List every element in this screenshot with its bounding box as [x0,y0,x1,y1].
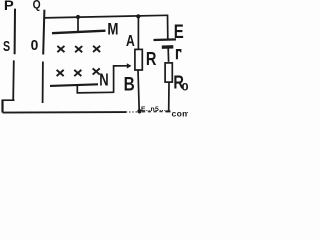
node junction dot at M drop [76,15,80,19]
magnetic field x row 1 [57,46,100,52]
wiper arrow shaft [113,65,127,67]
node junction dot on bottom rail [137,109,141,113]
capacitor plate Q-O (right vertical plate) [43,10,44,55]
svg-text:P: P [4,0,14,14]
wire jog horizontal [3,99,15,101]
wiper arrowhead [127,63,132,68]
bottom rail faded dashed segment [126,111,138,113]
wire drop to plate M [77,17,79,33]
svg-text:E: E [174,20,184,42]
battery short thick plate [162,45,174,49]
svg-text:S: S [3,39,10,55]
svg-text:N: N [99,71,108,90]
svg-text:0: 0 [31,38,39,54]
capacitor plate N (bottom horizontal plate) [50,84,98,86]
wire battery branch corner down [167,15,169,40]
wire from plate S down [12,60,15,100]
capacitor plate P-S (left vertical plate) [14,9,16,55]
wire riser up [113,66,115,93]
wire from plate O down (open end) [42,62,44,104]
wire from resistor R down [138,70,139,111]
top rail wire [44,15,168,18]
svg-text:com: com [172,108,189,117]
label r [176,49,182,59]
wire from top rail down to resistor R [137,16,139,49]
wire jog vertical down to bottom rail [1,100,3,113]
node junction dot at potentiometer top [136,14,140,18]
svg-text:Q: Q [33,0,41,12]
wire battery to R0 [167,49,169,62]
wire horizontal to riser [77,91,114,94]
resistor R0 body [165,63,172,82]
resistor R body [135,49,142,70]
svg-text:R: R [146,49,157,70]
bottom rail solid segment [3,111,127,114]
capacitor plate M (top horizontal plate) [52,31,106,34]
svg-text:B: B [124,73,135,95]
svg-text:M: M [107,22,118,39]
svg-text:0: 0 [181,80,188,93]
battery E long plate [154,38,177,41]
wire R0 down to bottom rail [168,82,170,111]
wire step down from plate N [76,85,78,93]
bottom rail right foot [166,110,171,112]
magnetic field x row 2 [57,68,100,76]
svg-text:E..n5...: E..n5... [141,106,166,113]
svg-text:A: A [126,31,135,49]
